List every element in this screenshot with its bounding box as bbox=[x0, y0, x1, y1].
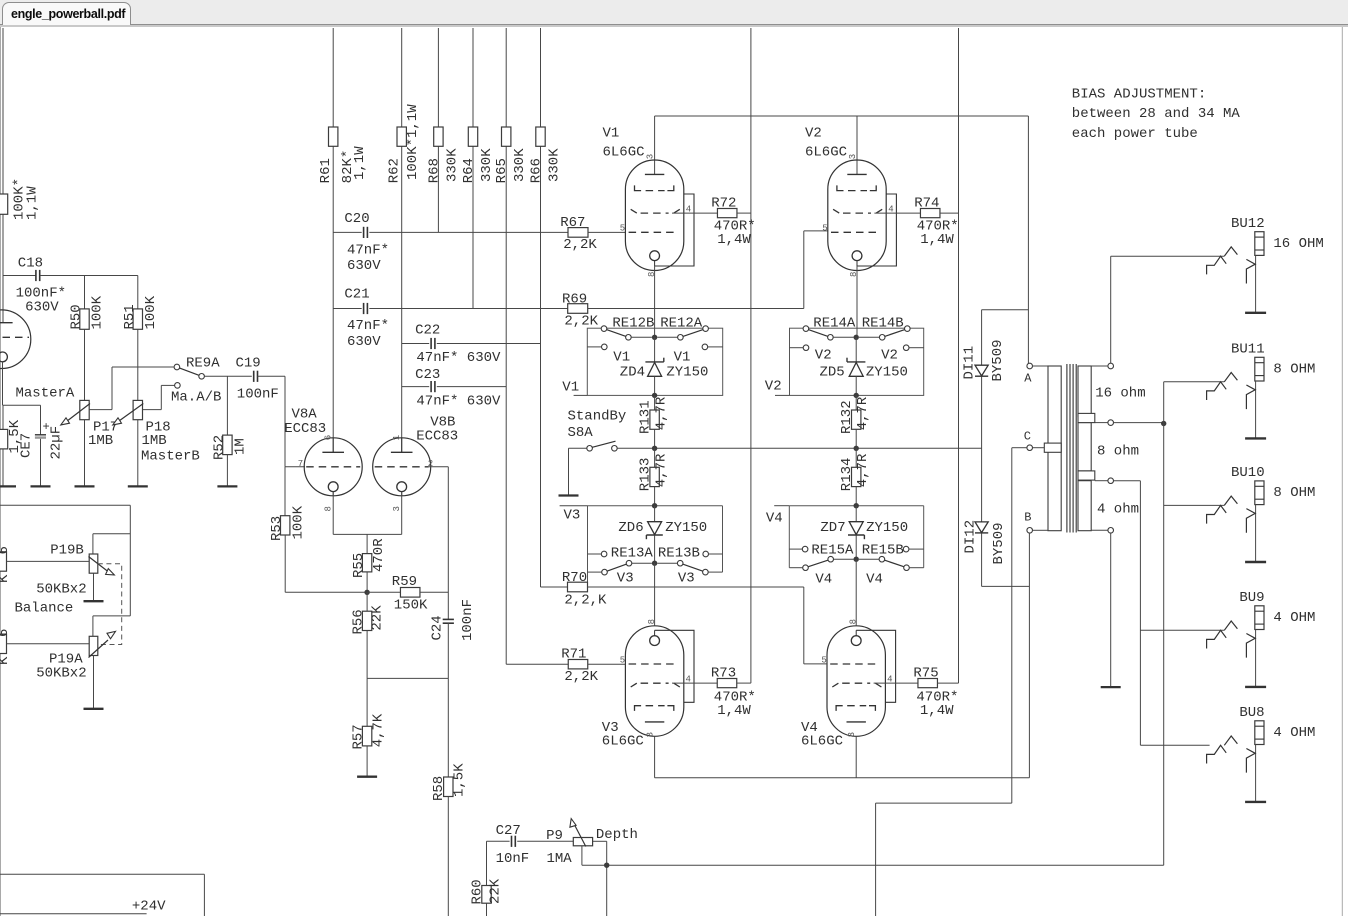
svg-text:100nF: 100nF bbox=[237, 387, 279, 403]
triode V8A ECC83 bbox=[304, 438, 362, 496]
svg-text:R64: R64 bbox=[461, 158, 477, 183]
svg-text:each power tube: each power tube bbox=[1072, 126, 1198, 142]
svg-text:3: 3 bbox=[847, 732, 857, 737]
svg-text:R56: R56 bbox=[350, 609, 366, 634]
box +24V supply bbox=[0, 873, 204, 875]
svg-text:47nF* 630V: 47nF* 630V bbox=[416, 350, 501, 366]
wire C27 corner bbox=[487, 840, 510, 842]
svg-text:R50: R50 bbox=[69, 304, 85, 329]
relay RE13B throw stub bbox=[703, 551, 709, 557]
wire R134 to RE15 bbox=[855, 487, 857, 506]
wire 4ohm column bbox=[1139, 481, 1141, 746]
relay box RE14 bbox=[790, 328, 924, 395]
svg-text:330K: 330K bbox=[512, 148, 528, 182]
svg-text:RE13B: RE13B bbox=[658, 545, 700, 561]
svg-text:C24: C24 bbox=[429, 615, 445, 640]
zener ZD7 ZY150 bbox=[849, 522, 863, 535]
ground CE7 bbox=[31, 485, 51, 487]
wire A to primary bbox=[1033, 365, 1049, 367]
svg-text:between 28 and 34 MA: between 28 and 34 MA bbox=[1072, 106, 1241, 122]
transformer sec tap1 bbox=[1078, 413, 1095, 422]
wire C24 column upper bbox=[447, 467, 449, 620]
wire C20 line left bbox=[333, 231, 362, 233]
transformer primary winding bbox=[1048, 366, 1061, 531]
relay RE15A lever bbox=[808, 560, 828, 567]
svg-text:2,2,K: 2,2,K bbox=[564, 593, 607, 609]
wire R66 column x540 bbox=[540, 28, 542, 587]
diode DI12 BY509 bbox=[975, 522, 988, 533]
svg-text:R66: R66 bbox=[529, 158, 545, 183]
svg-text:BY509: BY509 bbox=[990, 339, 1006, 381]
resistor stub left edge lower bbox=[0, 634, 7, 653]
svg-text:BU9: BU9 bbox=[1239, 590, 1264, 606]
resistor R65 330K bbox=[502, 127, 511, 146]
svg-text:C: C bbox=[1024, 430, 1031, 444]
wire R69 to V2 grid riser bbox=[588, 308, 804, 310]
svg-text:1,4W: 1,4W bbox=[717, 703, 751, 719]
wire cathode rail left bbox=[3, 404, 41, 406]
svg-text:V4: V4 bbox=[766, 510, 783, 526]
wire RE15A pivot line bbox=[789, 567, 802, 569]
triode V8B ECC83 bbox=[373, 438, 431, 496]
document tab engle_powerball.pdf bbox=[2, 2, 131, 25]
svg-text:R71: R71 bbox=[561, 647, 586, 663]
svg-text:V3: V3 bbox=[564, 508, 581, 524]
wire 4ohm link bbox=[1114, 480, 1141, 482]
svg-text:330K: 330K bbox=[547, 148, 563, 182]
svg-text:V2: V2 bbox=[805, 126, 822, 142]
tube V2 6L6GC bbox=[828, 160, 886, 271]
wire V8A grid entry bbox=[285, 466, 305, 468]
jack BU10 8 OHM bbox=[1164, 504, 1225, 506]
tube V3 6L6GC inverted bbox=[625, 626, 683, 737]
wire plate bus bottom bbox=[655, 777, 1030, 779]
capacitor C20 47nF* 630V bbox=[363, 227, 365, 238]
capacitor C19 100nF bbox=[253, 371, 255, 382]
transformer primary tap C bbox=[1044, 443, 1061, 452]
relay RE14A lever bbox=[808, 330, 828, 337]
svg-text:RE13A: RE13A bbox=[611, 545, 654, 561]
wire R65 column corner bbox=[506, 663, 568, 665]
ground R52 bbox=[217, 485, 237, 487]
relay contact RE9A lower bbox=[175, 383, 181, 389]
svg-text:R62: R62 bbox=[386, 158, 402, 183]
wire R75 to column bbox=[938, 682, 959, 684]
relay RE14A throw stub bbox=[790, 347, 804, 349]
svg-text:22K: 22K bbox=[370, 605, 386, 631]
resistor R64 330K bbox=[468, 127, 477, 146]
zener ZD5 ZY150 bbox=[847, 361, 865, 363]
wire C24 to cross bbox=[447, 623, 449, 678]
wire cathode join bus bbox=[333, 533, 402, 535]
relay RE9A lever bbox=[179, 368, 199, 376]
svg-text:C19: C19 bbox=[236, 356, 261, 372]
svg-text:K: K bbox=[0, 656, 12, 665]
relay RE12A throw stub bbox=[702, 344, 708, 350]
wire ZD4 anode bbox=[654, 337, 656, 362]
wire R134 top bbox=[855, 448, 857, 467]
node depth junction bbox=[604, 863, 609, 868]
resistor R57 4,7K bbox=[362, 726, 371, 746]
capacitor CE7 22uF electrolytic bbox=[35, 434, 46, 436]
svg-text:C20: C20 bbox=[344, 211, 369, 227]
svg-text:R60: R60 bbox=[469, 879, 485, 904]
grid dashes left triode bbox=[0, 336, 29, 338]
svg-text:3: 3 bbox=[646, 154, 656, 159]
zener ZD4 ZY150 bbox=[645, 361, 663, 363]
capacitor C22 47nF* 630V bbox=[430, 338, 432, 349]
relay RE14B contact bbox=[879, 335, 885, 341]
transformer core bbox=[1066, 364, 1068, 533]
resistor R68 330K bbox=[434, 127, 443, 146]
capacitor C23 47nF* 630V bbox=[430, 381, 432, 392]
wire CE7 to gnd bbox=[40, 439, 42, 487]
wire DI11 anode bbox=[981, 310, 983, 366]
wire P18 wiper bbox=[143, 409, 162, 411]
svg-text:1,4W: 1,4W bbox=[920, 232, 954, 248]
relay RE14B pivot bbox=[905, 326, 911, 332]
wire V3 plate drop bbox=[654, 736, 656, 778]
resistor R70 2,2,K bbox=[568, 582, 588, 592]
wire V4 grid entry bbox=[804, 663, 827, 665]
ground R57 bbox=[357, 776, 377, 778]
relay RE13A throw stub bbox=[588, 553, 602, 555]
svg-text:100K: 100K bbox=[290, 505, 306, 539]
svg-text:4,7K: 4,7K bbox=[371, 713, 387, 747]
wire C21 line left bbox=[333, 308, 362, 310]
relay RE15B throw stub bbox=[903, 546, 909, 552]
svg-text:C21: C21 bbox=[344, 287, 369, 303]
svg-text:R131: R131 bbox=[637, 400, 653, 434]
wire R52 to gnd bbox=[226, 455, 228, 487]
node S8A-V2 chain bbox=[854, 446, 859, 451]
potentiometer P19B 50KBx2 bbox=[89, 554, 98, 573]
wire +24V stub bbox=[0, 913, 147, 915]
svg-text:8: 8 bbox=[324, 506, 334, 511]
switch S8A pole bbox=[587, 446, 593, 452]
svg-text:C23: C23 bbox=[415, 367, 440, 383]
svg-text:ZY150: ZY150 bbox=[866, 520, 908, 536]
svg-text:CE7: CE7 bbox=[19, 433, 35, 458]
wire left column x3 bbox=[2, 28, 4, 323]
svg-text:5: 5 bbox=[620, 223, 625, 233]
wire sec gnd down bbox=[1110, 533, 1112, 687]
node RE13 top bbox=[652, 503, 657, 508]
transformer secondary 16ohm bbox=[1078, 366, 1091, 417]
wire V3 pin8 column bbox=[654, 563, 656, 626]
wire 16ohm riser bbox=[1110, 256, 1112, 363]
potentiometer P9 1MA Depth bbox=[573, 838, 592, 846]
wire 1,5K stub bbox=[2, 405, 4, 429]
wire R132 to S8A line bbox=[855, 429, 857, 448]
svg-text:R55: R55 bbox=[351, 553, 367, 578]
resistor R50 100K bbox=[80, 309, 89, 329]
wire P17 wiper bbox=[89, 409, 112, 411]
relay RE12B contact bbox=[626, 335, 632, 341]
resistor R71 2,2K bbox=[568, 660, 588, 669]
ground S8A bbox=[559, 494, 579, 496]
wire R59 line right bbox=[420, 591, 448, 593]
wire R131 to S8A line bbox=[654, 429, 656, 448]
relay RE13A contact bbox=[626, 560, 632, 566]
svg-text:1,1W: 1,1W bbox=[24, 186, 40, 220]
svg-text:8 ohm: 8 ohm bbox=[1097, 444, 1139, 460]
wire C to tap bbox=[1033, 447, 1045, 449]
svg-text:50KBx2: 50KBx2 bbox=[36, 665, 86, 681]
wire C22 line left bbox=[402, 343, 430, 345]
svg-text:6L6GC: 6L6GC bbox=[805, 145, 847, 161]
transformer terminal B bbox=[1027, 528, 1033, 534]
wire RE12 common right bbox=[657, 336, 677, 338]
capacitor C21 47nF* 630V bbox=[363, 303, 365, 314]
wire DI11 top link bbox=[982, 309, 1029, 311]
svg-text:ZD5: ZD5 bbox=[820, 365, 845, 381]
svg-text:1,1W: 1,1W bbox=[352, 146, 368, 180]
resistor R131 4,7R bbox=[650, 410, 659, 429]
wire V4 pin4 line bbox=[874, 682, 918, 684]
svg-text:630V: 630V bbox=[347, 258, 381, 274]
wire RE13 common left bbox=[632, 562, 652, 564]
relay RE14A contact bbox=[828, 335, 834, 341]
svg-text:8 OHM: 8 OHM bbox=[1273, 485, 1315, 501]
svg-text:1MB: 1MB bbox=[142, 433, 167, 449]
svg-text:4 ohm: 4 ohm bbox=[1097, 502, 1139, 518]
svg-text:R134: R134 bbox=[839, 458, 855, 492]
svg-text:R57: R57 bbox=[350, 724, 366, 749]
svg-text:22µF: 22µF bbox=[48, 426, 64, 460]
svg-text:C27: C27 bbox=[496, 823, 521, 839]
resistor R59 150K bbox=[400, 588, 420, 598]
wire S8A left L bbox=[569, 447, 587, 449]
svg-text:RE14A: RE14A bbox=[813, 315, 856, 331]
svg-text:8: 8 bbox=[647, 619, 657, 624]
wire P17 bottom to gnd bbox=[84, 420, 86, 487]
wire R73 to column bbox=[737, 682, 751, 684]
wire C23 line right bbox=[437, 386, 506, 388]
wire RE15 common left bbox=[834, 558, 854, 560]
wire RE12 bottom stub bbox=[574, 394, 588, 396]
wire V2 grid riser bbox=[803, 231, 805, 309]
svg-text:16 OHM: 16 OHM bbox=[1273, 236, 1323, 252]
svg-text:BU10: BU10 bbox=[1231, 465, 1265, 481]
wire R58 column top bbox=[447, 678, 449, 777]
svg-text:1MA: 1MA bbox=[547, 851, 573, 867]
svg-text:B: B bbox=[1024, 510, 1031, 524]
capacitor C18 100nF* 630V bbox=[35, 270, 37, 281]
tube V1 6L6GC bbox=[625, 160, 683, 271]
wire V8A cathode bbox=[332, 492, 334, 535]
svg-text:8: 8 bbox=[849, 272, 859, 277]
wire C tap horizontal bbox=[876, 802, 1012, 804]
resistor R73 470R* 1,4W bbox=[717, 679, 737, 688]
svg-text:R58: R58 bbox=[431, 776, 447, 801]
wire sec bottom terminal bbox=[1091, 529, 1108, 531]
page left border bbox=[0, 27, 2, 916]
wire R131 top bbox=[654, 395, 656, 410]
svg-text:16 ohm: 16 ohm bbox=[1095, 385, 1145, 401]
node RE13 common bbox=[652, 561, 657, 566]
wire R74 to column bbox=[940, 212, 959, 214]
svg-text:5: 5 bbox=[822, 223, 827, 233]
svg-text:R67: R67 bbox=[560, 215, 585, 231]
wire RE15 top stub bbox=[774, 505, 789, 507]
cathode circle left triode bbox=[0, 352, 7, 362]
node RE14 box bottom bbox=[854, 393, 859, 398]
svg-text:100K*1,1W: 100K*1,1W bbox=[405, 104, 421, 180]
resistor R75 470R* 1,4W bbox=[918, 679, 938, 688]
wire RE9A to C19 bbox=[204, 375, 251, 377]
svg-text:P19B: P19B bbox=[50, 542, 84, 558]
wire C23 line left bbox=[402, 386, 430, 388]
relay box RE15 left edge bbox=[788, 506, 790, 568]
wire V1 pin4 line bbox=[672, 212, 717, 214]
wire B column down bbox=[1028, 533, 1030, 778]
resistor R134 4,7R bbox=[852, 467, 861, 486]
svg-text:6L6GC: 6L6GC bbox=[603, 145, 645, 161]
svg-text:ZD6: ZD6 bbox=[618, 520, 643, 536]
svg-text:3: 3 bbox=[646, 732, 656, 737]
wire 8ohm terminal bbox=[1095, 422, 1108, 424]
svg-text:22K: 22K bbox=[487, 878, 503, 904]
wire C19 to corner bbox=[258, 375, 286, 377]
relay RE9A pole bbox=[199, 374, 205, 380]
relay box RE13 top bbox=[588, 505, 723, 507]
resistor R133 4,7R bbox=[650, 467, 659, 486]
ground P18 bbox=[128, 485, 148, 487]
wire ZD5 anode bbox=[855, 337, 857, 362]
wire R57 top bbox=[366, 678, 368, 726]
svg-text:6: 6 bbox=[0, 546, 12, 554]
relay box RE15 right edge bbox=[923, 506, 925, 568]
resistor 1,5K bbox=[0, 429, 8, 449]
wire R60 column bbox=[486, 841, 488, 885]
jack BU8 4 OHM bbox=[1140, 744, 1209, 746]
wire V4 pin8 column bbox=[855, 559, 857, 626]
wire plate column V8B x402 bbox=[401, 28, 403, 452]
transformer terminal 4ohm bbox=[1108, 478, 1114, 484]
wire R65 column x506 bbox=[505, 28, 507, 664]
svg-text:P9: P9 bbox=[546, 828, 563, 844]
wire V8B cathode bbox=[401, 492, 403, 535]
wire RE15 common right bbox=[859, 558, 879, 560]
svg-text:R61: R61 bbox=[318, 158, 334, 183]
relay RE12B lever bbox=[607, 330, 627, 337]
svg-text:K: K bbox=[0, 574, 12, 583]
ground P19B bbox=[84, 600, 104, 602]
wire R53 to NFB node bbox=[284, 535, 286, 592]
wire DI12 to B column bbox=[982, 585, 1030, 587]
wire V8A grid column bbox=[284, 376, 286, 467]
wire C tap to page edge bbox=[875, 803, 877, 916]
svg-text:330K: 330K bbox=[444, 148, 460, 182]
svg-text:R68: R68 bbox=[426, 158, 442, 183]
relay RE14B throw stub bbox=[903, 345, 909, 351]
svg-text:6L6GC: 6L6GC bbox=[602, 734, 644, 750]
node R55/R56/R59 bbox=[364, 590, 369, 595]
resistor R62 100K*1,1W bbox=[397, 127, 406, 146]
svg-text:2: 2 bbox=[428, 459, 433, 469]
wire V2 cathode down bbox=[856, 266, 858, 337]
svg-text:MasterA: MasterA bbox=[16, 386, 75, 402]
svg-text:1,5K: 1,5K bbox=[451, 763, 467, 797]
svg-text:R52: R52 bbox=[212, 435, 228, 460]
svg-text:R51: R51 bbox=[122, 304, 138, 329]
svg-text:1,4W: 1,4W bbox=[717, 232, 751, 248]
svg-text:100K: 100K bbox=[90, 295, 106, 329]
svg-text:R132: R132 bbox=[839, 400, 855, 434]
svg-text:C22: C22 bbox=[415, 323, 440, 339]
svg-text:1,4W: 1,4W bbox=[920, 703, 954, 719]
svg-text:DI12: DI12 bbox=[963, 520, 979, 554]
ground transformer secondary bbox=[1101, 686, 1121, 688]
relay RE15B lever bbox=[884, 560, 904, 567]
svg-text:2,2K: 2,2K bbox=[563, 237, 597, 253]
wire R50 column bbox=[84, 276, 86, 309]
svg-text:8: 8 bbox=[848, 619, 858, 624]
svg-text:ECC83: ECC83 bbox=[416, 429, 458, 445]
resistor R74 470R* 1,4W bbox=[920, 209, 940, 218]
wire ZD6 top bbox=[654, 506, 656, 522]
wire RE13A pivot line bbox=[588, 571, 602, 573]
wire R70 feed corner bbox=[541, 586, 568, 588]
transformer terminal A bbox=[1027, 363, 1033, 369]
wire ZD4 to box bottom bbox=[654, 377, 656, 396]
node RE12 common bbox=[652, 335, 657, 340]
svg-text:V3: V3 bbox=[617, 570, 634, 586]
wire P19B to gnd bbox=[93, 573, 95, 601]
transformer terminal 8ohm bbox=[1108, 420, 1114, 426]
svg-text:R59: R59 bbox=[392, 574, 417, 590]
diode DI11 BY509 bbox=[975, 365, 988, 376]
node 8ohm junction bbox=[1161, 421, 1166, 426]
svg-text:StandBy: StandBy bbox=[568, 408, 627, 424]
resistor R53 100K bbox=[281, 516, 290, 535]
resistor 100K* 1,1W left edge bbox=[0, 194, 8, 214]
svg-text:RE9A: RE9A bbox=[186, 356, 220, 372]
svg-text:V4: V4 bbox=[815, 571, 832, 587]
wire R51 to P18 bbox=[137, 329, 139, 400]
svg-text:8 OHM: 8 OHM bbox=[1273, 362, 1315, 378]
relay RE13B pivot bbox=[703, 569, 709, 575]
resistor R60 22K bbox=[482, 886, 491, 904]
relay RE14A pivot bbox=[803, 326, 809, 332]
svg-text:+24V: +24V bbox=[132, 898, 166, 914]
svg-text:V1: V1 bbox=[603, 126, 620, 142]
svg-text:4,7R: 4,7R bbox=[855, 396, 871, 430]
switch S8A contact bbox=[612, 446, 618, 452]
transformer terminal sec gnd bbox=[1108, 528, 1114, 534]
wire RE15B pivot line bbox=[909, 567, 923, 569]
svg-text:4,7R: 4,7R bbox=[654, 453, 670, 487]
wire V1 plate riser bbox=[654, 116, 656, 174]
svg-text:2,2K: 2,2K bbox=[564, 314, 598, 330]
svg-text:Ma.A/B: Ma.A/B bbox=[171, 390, 221, 406]
wire cathode tap to R55 bbox=[366, 534, 368, 553]
wire RE14 common left bbox=[833, 336, 853, 338]
relay RE12A contact bbox=[678, 335, 684, 341]
relay RE12B pivot bbox=[601, 326, 607, 332]
svg-text:Balance: Balance bbox=[15, 601, 74, 617]
wire R55 to node bbox=[366, 572, 368, 592]
wire C18 line left bbox=[3, 275, 36, 277]
wire R133 to RE13 bbox=[654, 487, 656, 506]
wire S8A line bbox=[617, 447, 981, 449]
wire 8ohm column bbox=[1163, 382, 1165, 865]
wire ZD7 to common bbox=[855, 535, 857, 559]
wire supply to transformer A bbox=[1027, 116, 1029, 363]
node RE15 common bbox=[854, 557, 859, 562]
potentiometer P19A 50KBx2 bbox=[89, 636, 98, 655]
